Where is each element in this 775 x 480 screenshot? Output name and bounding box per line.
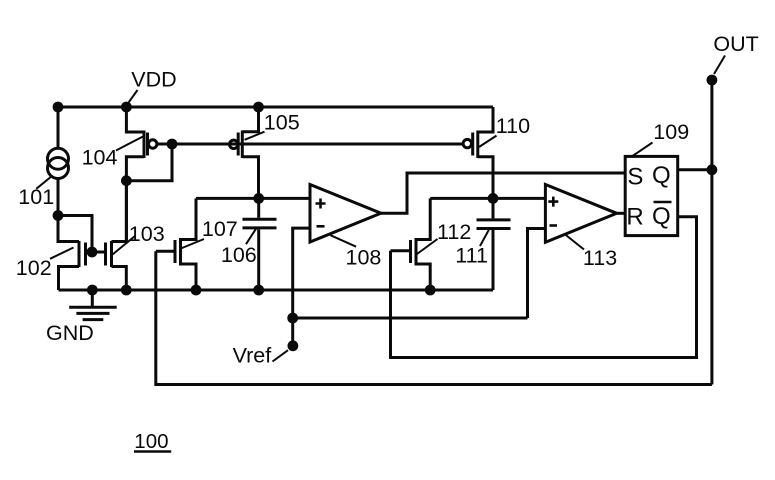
wire 103 source lead to GND rail <box>112 267 127 291</box>
svg-text:111: 111 <box>455 244 488 268</box>
svg-text:104: 104 <box>82 146 118 170</box>
leader line 101 <box>36 177 51 189</box>
wire 108 minus input from Vref <box>293 228 310 318</box>
capacitor C106 top lead <box>257 198 260 217</box>
wire current source 101 to node <box>57 179 60 216</box>
leader line 109 <box>633 143 653 157</box>
capacitor C106 bottom plate <box>243 226 277 229</box>
node 104 gate junction dot <box>167 139 178 150</box>
transistor Q107 gate bar <box>174 240 177 263</box>
wire 110 drain lead to node B <box>478 157 493 199</box>
plus sign 113 <box>548 197 558 207</box>
wire 107 drain lead <box>181 198 197 239</box>
wire Q output to OUT node <box>678 168 712 171</box>
transistor Q110 channel <box>476 131 479 159</box>
wire OUT vertical <box>710 80 713 385</box>
capacitor C111 top lead <box>492 198 495 218</box>
node 104 drain dot <box>121 175 132 186</box>
transistor Q112 gate lead <box>391 249 411 252</box>
leader line 105 <box>245 132 265 140</box>
transistor Q112 gate bar <box>409 240 412 263</box>
node GND rail dot at 103 source <box>121 285 132 296</box>
node GND rail dot at 107 source <box>191 285 202 296</box>
wire Vref horizontal line <box>293 317 528 320</box>
wire from VDD rail down to current source 101 <box>57 107 60 148</box>
capacitor C111 top plate <box>477 218 511 221</box>
ground symbol bar 3 <box>83 318 104 321</box>
wire 102 drain lead <box>58 216 79 242</box>
leader line 107 <box>181 239 204 249</box>
svg-text:110: 110 <box>496 114 530 138</box>
wire 113 minus input from Vref line <box>528 229 546 319</box>
node gate junction dot 102/103 <box>87 247 98 258</box>
leader line 102 <box>50 248 74 259</box>
node VDD-rail dot at 105 source <box>253 102 264 113</box>
leader line Vref <box>273 350 289 361</box>
current source 101 <box>48 148 69 169</box>
wire VDD rail <box>58 106 493 109</box>
svg-text:GND: GND <box>46 321 94 345</box>
node GND rail dot at C106 <box>253 285 264 296</box>
transistor Q105 gate bar <box>237 133 240 156</box>
node Vref terminal dot <box>288 340 299 351</box>
leader line 112 <box>417 239 438 254</box>
svg-text:100: 100 <box>134 430 168 453</box>
transistor Q102 channel <box>78 241 81 267</box>
transistor Q104 gate bar <box>146 133 149 156</box>
capacitor C111 bottom plate <box>477 227 511 230</box>
wire 112 drain lead <box>416 198 430 239</box>
svg-text:R: R <box>626 203 643 230</box>
leader line 110 <box>479 136 497 147</box>
svg-text:Q: Q <box>652 203 671 230</box>
wire node A horizontal (107 drain to comparator 108 +) <box>196 197 310 200</box>
wire 104 source lead <box>126 107 144 132</box>
capacitor C111 bottom lead to GND rail <box>492 230 495 290</box>
minus sign 108 <box>317 225 325 228</box>
wire OUT feedback to 107 gate <box>156 251 712 384</box>
capacitor C106 top plate <box>243 218 277 221</box>
transistor Q104 gate bubble <box>149 140 157 148</box>
transistor Q112 channel <box>415 238 418 266</box>
wire 105 drain lead to node A <box>242 157 258 199</box>
wire Vref terminal stub <box>291 318 294 346</box>
leader line 103 <box>113 236 136 255</box>
svg-text:VDD: VDD <box>131 68 176 92</box>
svg-text:103: 103 <box>129 222 165 246</box>
capacitor C106 bottom lead to GND rail <box>257 229 260 290</box>
wire GND rail <box>59 289 494 292</box>
node VDD-rail left dot <box>53 102 64 113</box>
wire node B horizontal (112 drain to comparator 113 +) <box>430 197 545 200</box>
ground symbol bar 1 <box>69 306 117 309</box>
svg-text:OUT: OUT <box>713 32 758 56</box>
node A dot <box>253 193 264 204</box>
op-amp comparator U113 <box>545 185 616 243</box>
node OUT terminal dot <box>707 75 718 86</box>
leader line 111 <box>480 230 489 247</box>
wire 112 source lead to GND rail <box>416 264 430 290</box>
leader line 108 <box>330 235 356 247</box>
wire 104 diode connection gate-to-drain <box>126 144 172 181</box>
svg-text:112: 112 <box>437 220 471 244</box>
plus sign 108 <box>316 199 326 209</box>
transistor Q107 gate lead <box>156 250 175 253</box>
wire 113 output to latch R input <box>617 212 626 215</box>
wire bias node to gates of 102/103 <box>58 216 92 253</box>
ground symbol bar 2 <box>76 312 109 315</box>
wire 104 gate lead <box>157 143 172 146</box>
wire Qbar output feedback to 112 gate <box>391 217 697 358</box>
leader line VDD <box>127 90 138 105</box>
node Vref junction dot <box>287 313 298 324</box>
transistor Q103 channel <box>110 241 113 267</box>
wire 108 output to latch S input <box>381 173 625 213</box>
Qbar overline <box>654 201 672 204</box>
svg-text:113: 113 <box>583 246 617 270</box>
leader line 104 <box>116 137 143 151</box>
svg-text:107: 107 <box>202 217 238 241</box>
minus sign 113 <box>550 224 558 227</box>
underline 100 <box>134 450 171 452</box>
transistor Q102 gate lead <box>86 251 93 254</box>
node OUT junction dot <box>707 164 718 175</box>
transistor Q102 gate bar <box>84 243 87 266</box>
ground symbol stem <box>91 290 94 306</box>
leader line 113 <box>566 235 584 250</box>
transistor Q103 gate lead <box>92 251 106 254</box>
transistor Q103 gate bar <box>104 243 107 266</box>
wire common gate line 104-105-110 <box>172 143 463 146</box>
transistor Q107 channel <box>179 238 182 266</box>
svg-text:102: 102 <box>16 256 52 280</box>
svg-text:Vref: Vref <box>233 344 272 368</box>
op-amp comparator U108 <box>310 185 381 243</box>
wire 107 source lead to GND rail <box>181 264 197 290</box>
svg-text:S: S <box>627 164 643 191</box>
wire 102 source lead to GND rail <box>59 267 80 291</box>
transistor Q110 gate bubble <box>463 139 471 147</box>
wire 103 drain lead up to 104 drain <box>112 181 127 242</box>
node B dot <box>488 193 499 204</box>
leader line OUT <box>714 56 725 75</box>
svg-text:109: 109 <box>653 120 689 144</box>
svg-text:Q: Q <box>652 162 671 189</box>
svg-text:105: 105 <box>264 111 300 135</box>
transistor Q105 channel <box>241 131 244 159</box>
node GND rail dot at 112 source <box>425 285 436 296</box>
node VDD-rail dot at 104 source <box>121 102 132 113</box>
leader line 106 <box>246 229 256 245</box>
svg-text:108: 108 <box>346 246 382 270</box>
svg-text:106: 106 <box>221 243 257 267</box>
transistor Q104 channel <box>143 131 146 159</box>
wire 110 source lead from VDD rail <box>478 107 493 132</box>
node mirror bias dot <box>53 210 64 221</box>
wire 105 source lead <box>242 107 258 132</box>
transistor Q110 gate bar <box>471 133 474 156</box>
node GND rail dot at ground symbol <box>87 285 98 296</box>
wire 104 drain lead <box>126 157 144 242</box>
latch U109 box <box>625 156 678 235</box>
transistor Q105 gate bubble <box>230 140 238 148</box>
